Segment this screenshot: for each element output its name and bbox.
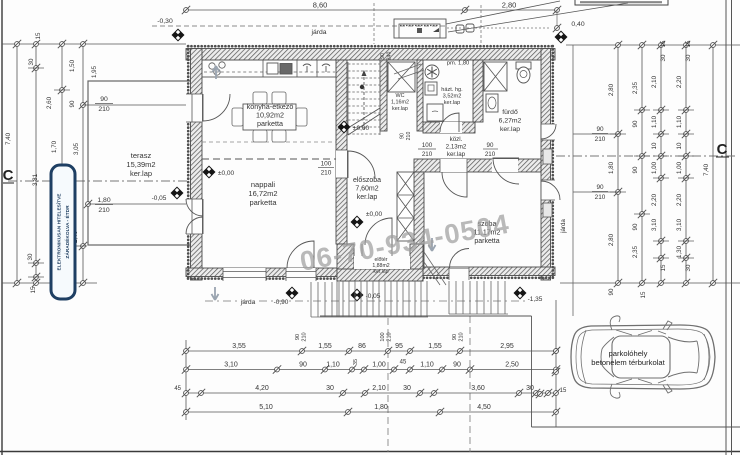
svg-text:30: 30	[660, 54, 667, 61]
svg-text:1,70: 1,70	[51, 140, 58, 153]
svg-text:6,27m2: 6,27m2	[499, 118, 522, 125]
svg-text:ker.lap: ker.lap	[130, 169, 152, 178]
bottom row 4	[186, 411, 556, 413]
digital signature stamp	[51, 165, 75, 299]
opening hg door	[440, 122, 462, 133]
svg-text:90: 90	[453, 362, 461, 369]
bottom row 1	[186, 350, 556, 352]
right chain connector ticks	[610, 133, 626, 135]
vent box above wall	[394, 19, 446, 38]
dim vertical tick near vent	[480, 5, 482, 44]
top dimension line 8.60	[186, 9, 465, 11]
svg-text:5,10: 5,10	[259, 404, 273, 411]
svg-text:3,55: 3,55	[232, 343, 246, 350]
svg-text:1,00: 1,00	[676, 161, 683, 174]
chimney shaft truss column	[397, 172, 414, 241]
svg-text:2,80: 2,80	[502, 1, 517, 10]
svg-text:1,10: 1,10	[676, 115, 683, 128]
svg-text:90: 90	[380, 53, 386, 59]
svg-text:2,10: 2,10	[651, 75, 658, 88]
left chain connector 1.80/210	[88, 203, 186, 205]
svg-text:90: 90	[632, 223, 639, 230]
parking boundary	[320, 315, 532, 317]
svg-text:210: 210	[406, 132, 412, 141]
svg-text:1,10: 1,10	[420, 362, 434, 369]
section line C-C left segment	[8, 180, 192, 182]
wall left exterior	[191, 49, 203, 281]
door bottom wall szoba	[449, 267, 469, 280]
svg-text:100: 100	[422, 142, 433, 149]
gray arrow back steps	[429, 238, 436, 251]
svg-text:210: 210	[321, 170, 332, 177]
level marker nappali	[202, 165, 215, 178]
door leaf terrace->kitchen	[203, 94, 230, 121]
svg-text:240: 240	[387, 52, 393, 61]
svg-text:1,55: 1,55	[318, 343, 332, 350]
staircase treads	[348, 63, 380, 65]
kitchen hob circles	[209, 63, 215, 69]
left chain mid circles	[32, 64, 40, 72]
svg-text:2,80: 2,80	[608, 83, 615, 96]
wall interior below hg room	[423, 122, 475, 133]
level marker eloszoba	[337, 120, 350, 133]
left chain verticals	[16, 44, 18, 283]
opening bath door	[492, 159, 518, 172]
svg-text:1,00: 1,00	[651, 161, 658, 174]
ceiling dashed line kitchen	[202, 141, 336, 143]
svg-text:közl.: közl.	[450, 136, 463, 143]
svg-text:1,95: 1,95	[91, 65, 98, 78]
wall interior stair east	[380, 60, 387, 131]
ventilation fan symbol	[425, 65, 439, 79]
right window connector 2	[573, 191, 618, 193]
svg-text:30: 30	[685, 264, 692, 271]
svg-text:30: 30	[326, 385, 334, 392]
svg-text:parketta: parketta	[249, 198, 277, 207]
svg-text:C: C	[717, 141, 728, 158]
jarda dashed line bottom	[205, 300, 525, 302]
opening hall wall door to eloszoba	[336, 150, 347, 178]
svg-text:WC: WC	[396, 93, 405, 99]
svg-text:8,60: 8,60	[313, 1, 328, 10]
bottom rows vertical connector right	[555, 300, 557, 427]
svg-text:7,60m2: 7,60m2	[355, 186, 378, 193]
svg-text:30: 30	[28, 58, 35, 65]
svg-text:3,10: 3,10	[676, 218, 683, 231]
boiler	[427, 104, 443, 121]
svg-text:±0,00: ±0,00	[353, 125, 370, 132]
dotted line to 0,40 marker	[447, 27, 551, 29]
wall top exterior	[186, 49, 555, 61]
svg-text:járda: járda	[240, 299, 256, 306]
insulation dotted edge left	[187, 46, 190, 280]
right chain verticals	[617, 45, 619, 283]
svg-text:7,40: 7,40	[703, 163, 710, 176]
svg-text:100: 100	[321, 161, 332, 168]
svg-text:2,50: 2,50	[505, 362, 519, 369]
svg-text:1,30: 1,30	[676, 245, 683, 258]
svg-text:parketta: parketta	[257, 119, 283, 128]
top dimension 2.80	[465, 9, 557, 11]
svg-text:210: 210	[595, 136, 606, 143]
svg-text:±0,00: ±0,00	[218, 170, 235, 177]
opening left wall door 180/210	[186, 199, 202, 234]
svg-text:1,16m2: 1,16m2	[391, 100, 409, 106]
chairs	[253, 92, 267, 104]
svg-text:3,10: 3,10	[224, 362, 238, 369]
right window connector 1	[573, 133, 618, 135]
svg-text:3,10: 3,10	[651, 218, 658, 231]
parking car top view	[571, 316, 715, 398]
bottom dashed projection lines	[387, 318, 389, 452]
terrace outline	[88, 81, 194, 245]
kitchen appliance fridge	[303, 64, 311, 72]
svg-text:3,81: 3,81	[32, 173, 39, 186]
svg-text:fürdő: fürdő	[502, 109, 518, 116]
svg-text:210: 210	[485, 151, 496, 158]
svg-text:2,95: 2,95	[500, 343, 514, 350]
svg-text:2,20: 2,20	[676, 193, 683, 206]
top leader diagonals	[446, 1, 560, 24]
wall entry annex west	[337, 244, 354, 281]
wall interior vertical hall/west	[336, 60, 347, 244]
svg-text:2,13m2: 2,13m2	[446, 144, 467, 151]
bottom extra circles cluster	[536, 390, 544, 398]
svg-text:90: 90	[608, 288, 615, 295]
svg-text:járda: járda	[310, 29, 326, 36]
sheet frame bottom edge	[0, 451, 740, 453]
right wall niche window 2	[543, 203, 552, 217]
kitchen sink double bowl	[267, 63, 278, 74]
shower tray	[484, 62, 507, 91]
bottom row 3	[186, 392, 556, 394]
svg-text:ker.lap: ker.lap	[444, 100, 460, 106]
svg-text:ker.lap: ker.lap	[447, 151, 466, 158]
left chain connector terasz bottom	[55, 245, 87, 247]
bathroom sink	[486, 94, 498, 112]
svg-text:pm. 1,80: pm. 1,80	[447, 61, 470, 67]
svg-text:nappali: nappali	[251, 180, 276, 189]
svg-text:15: 15	[660, 264, 667, 271]
svg-text:±0,00: ±0,00	[366, 211, 383, 218]
wall entry annex east	[410, 244, 423, 281]
svg-text:210: 210	[98, 106, 110, 113]
svg-text:-0,30: -0,30	[157, 18, 173, 25]
svg-text:90: 90	[487, 142, 494, 149]
watermark phone number	[297, 208, 512, 277]
level marker walk level left	[285, 286, 298, 299]
svg-text:-0,05: -0,05	[152, 195, 167, 202]
svg-text:előszoba: előszoba	[353, 177, 381, 184]
section line C-C right segment	[556, 155, 736, 157]
leader diagonals wc area	[394, 64, 421, 74]
svg-text:86: 86	[358, 343, 366, 350]
svg-text:járda: járda	[560, 219, 567, 234]
svg-text:7,40: 7,40	[5, 132, 12, 145]
svg-text:90: 90	[100, 96, 108, 103]
svg-text:ker.lap: ker.lap	[357, 194, 378, 201]
svg-text:30: 30	[27, 253, 34, 260]
svg-text:90: 90	[632, 120, 639, 127]
wall interior above szoba	[414, 159, 541, 172]
level marker entry inside	[350, 215, 363, 228]
wall interior hg/bath	[473, 60, 483, 122]
svg-text:15: 15	[560, 388, 567, 394]
svg-text:1,10: 1,10	[651, 115, 658, 128]
wall entry annex bottom	[337, 269, 423, 281]
svg-text:10: 10	[676, 142, 683, 149]
svg-text:1,50: 1,50	[69, 59, 76, 72]
svg-text:90: 90	[295, 334, 301, 340]
svg-text:90: 90	[596, 184, 604, 191]
svg-text:90: 90	[299, 362, 307, 369]
back steps treads	[448, 281, 450, 314]
svg-text:parkolóhely: parkolóhely	[609, 349, 648, 358]
svg-text:1,10: 1,10	[326, 362, 340, 369]
svg-text:ker.lap: ker.lap	[500, 126, 520, 133]
dining table	[243, 104, 296, 130]
level marker entry outside	[350, 288, 363, 301]
svg-text:210: 210	[422, 151, 433, 158]
svg-text:3,60: 3,60	[471, 385, 485, 392]
svg-text:terasz: terasz	[131, 151, 152, 160]
svg-text:C: C	[3, 167, 14, 184]
svg-text:1,80: 1,80	[97, 197, 110, 204]
svg-text:2,10: 2,10	[372, 385, 386, 392]
svg-text:2,80: 2,80	[608, 233, 615, 246]
svg-text:2,20: 2,20	[651, 193, 658, 206]
svg-text:betonelem térburkolat: betonelem térburkolat	[591, 358, 665, 367]
bottom row 2	[186, 369, 556, 371]
gray arrow bottom door	[212, 287, 219, 300]
svg-text:210: 210	[459, 332, 465, 341]
window bottom wall nappali	[223, 268, 266, 281]
svg-text:90: 90	[632, 166, 639, 173]
top dashed sidewalk line	[152, 25, 447, 27]
stair landing cross box	[388, 62, 415, 92]
svg-text:100: 100	[380, 332, 386, 341]
svg-text:2,20: 2,20	[676, 75, 683, 88]
wall right exterior	[541, 49, 551, 281]
svg-text:90: 90	[596, 126, 604, 133]
right chain top row	[566, 44, 740, 46]
svg-text:90: 90	[400, 133, 406, 139]
svg-text:-1,35: -1,35	[528, 296, 543, 303]
svg-text:3,05: 3,05	[73, 142, 80, 155]
svg-text:15: 15	[660, 40, 667, 47]
entry door leaf	[365, 218, 392, 245]
opening szoba door	[440, 159, 467, 172]
sidewalk line right of building	[572, 45, 574, 316]
svg-text:95: 95	[395, 343, 403, 350]
right chain bottom row	[560, 282, 740, 284]
stair newel dot	[360, 85, 364, 89]
title box top right (cut off)	[575, 0, 668, 5]
toilet	[516, 62, 531, 69]
svg-text:30: 30	[403, 385, 411, 392]
opening left wall door 90/210	[186, 94, 202, 122]
svg-text:1,80: 1,80	[608, 161, 615, 174]
svg-text:90: 90	[69, 100, 76, 107]
opening right wall szoba door	[541, 180, 555, 200]
washing machine	[425, 82, 437, 95]
counter dashed centerline	[204, 71, 335, 73]
wall bottom exterior right (szoba)	[410, 267, 555, 276]
svg-text:0,40: 0,40	[571, 21, 584, 28]
entry annex inner floor	[354, 256, 410, 269]
svg-text:15: 15	[640, 291, 647, 298]
svg-text:1,55: 1,55	[428, 343, 442, 350]
svg-text:35: 35	[353, 359, 359, 365]
kitchen counter	[202, 60, 336, 77]
svg-text:210: 210	[98, 207, 110, 214]
bottom rows vertical connector left	[185, 340, 187, 420]
staircase cut diagonals	[348, 108, 380, 128]
level marker top-right	[554, 30, 567, 43]
opening right wall upper door	[541, 124, 555, 140]
insulation dotted edge right	[551, 46, 554, 280]
door bottom wall nappali (terrace door)	[286, 268, 316, 281]
svg-text:2,35: 2,35	[632, 245, 639, 258]
svg-text:16,72m2: 16,72m2	[248, 189, 277, 198]
wall bottom exterior left (nappali)	[186, 268, 337, 277]
svg-text:1,00: 1,00	[372, 362, 386, 369]
svg-text:10: 10	[651, 142, 658, 149]
wall interior szoba west	[414, 172, 424, 268]
svg-text:15: 15	[30, 286, 37, 293]
svg-text:3,52m2: 3,52m2	[443, 94, 462, 100]
svg-text:30: 30	[526, 385, 534, 392]
svg-text:4,20: 4,20	[255, 385, 269, 392]
svg-text:210: 210	[595, 194, 606, 201]
svg-text:15: 15	[685, 40, 692, 47]
svg-text:ker.lap: ker.lap	[392, 106, 408, 112]
staircase walk line with arrow	[363, 75, 365, 130]
svg-text:15: 15	[35, 32, 42, 39]
steps diagonal mark	[424, 252, 446, 285]
svg-text:házt. hg.: házt. hg.	[441, 87, 463, 93]
level marker terasz	[170, 186, 183, 199]
vent small knobs	[456, 25, 464, 33]
svg-text:4,50: 4,50	[477, 404, 491, 411]
insulation dotted edge bottom	[188, 277, 337, 280]
svg-text:2,60: 2,60	[46, 96, 53, 109]
entry steps treads	[310, 282, 312, 317]
svg-text:45: 45	[174, 386, 181, 392]
sheet frame left edge	[1, 0, 3, 455]
level 0.40	[553, 24, 561, 32]
svg-text:-0,90: -0,90	[274, 299, 289, 306]
double door leaves terrace->nappali	[186, 199, 203, 216]
svg-text:45: 45	[400, 360, 407, 366]
gray arrow kitchen entry	[213, 66, 220, 79]
right chain mid circles	[614, 130, 622, 138]
kitchen appliance stove	[322, 64, 330, 72]
insulation dotted edge top	[188, 45, 555, 48]
svg-text:210: 210	[387, 332, 393, 341]
right wall niche window 1	[543, 149, 552, 164]
wall interior wc east	[417, 60, 423, 131]
svg-text:1,80: 1,80	[374, 404, 388, 411]
svg-text:2,35: 2,35	[632, 81, 639, 94]
svg-text:ker.lap: ker.lap	[373, 269, 388, 275]
sheet frame right double line	[725, 0, 727, 455]
left chain bottom row	[2, 282, 97, 284]
dashed projection line left of stairs	[373, 3, 375, 44]
svg-text:30: 30	[685, 54, 692, 61]
left chain connector 90/210	[83, 104, 186, 106]
level marker top-left	[171, 28, 184, 41]
opening entry door	[362, 244, 392, 256]
level marker walk level right	[513, 286, 526, 299]
svg-text:210: 210	[302, 332, 308, 341]
svg-text:90: 90	[452, 334, 458, 340]
left chain top row	[2, 43, 186, 45]
svg-text:15,39m2: 15,39m2	[126, 160, 155, 169]
open passage dashed line konyha/nappali	[202, 158, 336, 160]
